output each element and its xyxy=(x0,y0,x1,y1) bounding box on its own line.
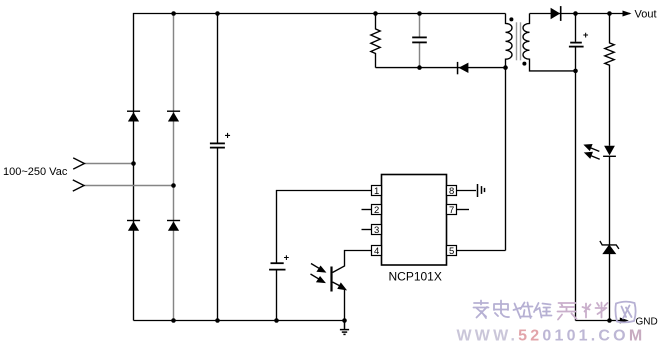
svg-text:3: 3 xyxy=(374,225,379,236)
node: bottom rail / bridge right xyxy=(171,318,176,323)
wire: ac input line 2 xyxy=(84,185,174,187)
svg-text:+: + xyxy=(284,253,290,264)
node: vout / R2 xyxy=(607,11,612,16)
svg-text:5: 5 xyxy=(449,246,454,257)
node: top rail / bulk cap xyxy=(215,11,220,16)
node: top rail / bridge right xyxy=(171,11,176,16)
svg-text:2: 2 xyxy=(374,205,379,216)
pin 4 box xyxy=(372,246,382,256)
svg-text:4: 4 xyxy=(374,246,379,257)
wire: pin2 stub xyxy=(362,209,372,211)
pin 1 box xyxy=(372,186,382,196)
chassis ground (pin8) xyxy=(478,184,485,197)
node: gnd rail / zener xyxy=(607,318,612,323)
node: bottom rail / C2 xyxy=(274,318,279,323)
resistor R1 (snubber) xyxy=(371,14,506,68)
transformer T1 primary xyxy=(506,14,513,251)
node: bottom rail / bulk cap xyxy=(215,318,220,323)
wire: pin1 to C2 xyxy=(277,191,372,263)
wire: zener to gnd rail xyxy=(609,254,611,321)
svg-text:WWW.520101.COM: WWW.520101.COM xyxy=(457,328,646,345)
vout arrow xyxy=(623,11,632,17)
svg-text:Vout: Vout xyxy=(635,8,657,20)
node: top rail / snubber C xyxy=(417,11,422,16)
diode D3 (bridge bottom-left) xyxy=(128,221,139,230)
phase dot secondary xyxy=(522,62,526,66)
diode D2 (bridge top-right) xyxy=(168,112,179,121)
pin 3 box xyxy=(372,225,382,235)
pin 2 box xyxy=(372,205,382,215)
wire: snubber bottom line xyxy=(376,67,506,69)
node: vout / C3 xyxy=(573,11,578,16)
transformer T1 secondary xyxy=(523,14,576,71)
wire: secondary gnd rail xyxy=(576,320,622,322)
wire: ac input line 1 xyxy=(84,163,133,165)
Q1 emitter xyxy=(333,282,346,321)
wire: pin5 to transformer xyxy=(457,250,506,252)
svg-text:+: + xyxy=(225,131,231,142)
wire: led to zener xyxy=(609,157,611,246)
Q1 light arrows xyxy=(311,264,325,283)
diode D6 (output rectifier) xyxy=(551,6,562,21)
wire: bulk cap branch lower xyxy=(217,148,219,320)
resistor R2 (load/feedback) xyxy=(605,14,614,146)
svg-text:7: 7 xyxy=(449,205,454,216)
pin numbers xyxy=(374,186,454,257)
diode D5 (clamp, pointing left) xyxy=(457,62,469,74)
node: primary bottom xyxy=(503,65,508,70)
wire: secondary top to vout xyxy=(530,13,631,15)
wire: bottom primary rail xyxy=(134,320,345,322)
node: input2 / right leg xyxy=(171,183,176,188)
pin 5 box xyxy=(447,246,457,256)
wire: C2 to bottom rail xyxy=(276,270,278,321)
zener D8 xyxy=(600,241,619,254)
wire: pin3 stub xyxy=(362,229,372,231)
diode D4 (bridge bottom-right) xyxy=(168,221,179,230)
node: bottom rail / Q1 emitter xyxy=(342,318,347,323)
watermark line 1 (chinese) xyxy=(474,301,636,323)
optocoupler transistor Q1 base bar xyxy=(330,267,332,292)
gnd arrow xyxy=(620,318,629,324)
svg-text:100~250 Vac: 100~250 Vac xyxy=(3,166,68,178)
svg-text:8: 8 xyxy=(449,186,454,197)
svg-text:+: + xyxy=(583,30,589,41)
capacitor C1 (bulk) plates xyxy=(210,143,225,147)
node: secondary bottom / C3 xyxy=(573,69,578,74)
wire: top rail xyxy=(134,14,506,321)
input arrow 1 xyxy=(73,158,84,169)
LED light arrows xyxy=(585,145,600,160)
capacitor C4 lower lead xyxy=(419,43,421,68)
wire: bridge right leg xyxy=(173,14,175,321)
node: top rail / snubber R xyxy=(373,11,378,16)
capacitor C3 (output) plates xyxy=(569,43,584,47)
wire: output cap branch xyxy=(575,14,577,321)
capacitor C4 plates xyxy=(412,37,427,42)
wire: pin4 to opto collector xyxy=(333,251,372,273)
pin 8 box xyxy=(447,186,457,196)
capacitor C2 plates xyxy=(269,263,285,269)
earth ground (primary) xyxy=(340,321,349,335)
transformer T1 core xyxy=(517,22,521,60)
svg-text:1: 1 xyxy=(374,186,379,197)
wire: bulk cap branch upper xyxy=(217,14,219,144)
node: input1 / left leg xyxy=(131,161,136,166)
IC pin boxes xyxy=(372,186,457,256)
IC U1 NCP101X body xyxy=(382,175,447,266)
node: snubber C bottom xyxy=(417,65,422,70)
capacitor C4 (snubber) upper lead xyxy=(419,14,421,38)
input arrow 2 xyxy=(73,180,84,191)
wire: pin7 stub xyxy=(457,209,470,211)
LED D7 xyxy=(603,146,616,157)
phase dot primary xyxy=(509,17,513,21)
diode D1 (bridge top-left) xyxy=(128,112,139,121)
svg-text:NCP101X: NCP101X xyxy=(389,270,442,284)
pin 7 box xyxy=(447,205,457,215)
svg-text:GND: GND xyxy=(636,316,658,327)
wire: pin8 to chassis ground xyxy=(457,190,477,192)
